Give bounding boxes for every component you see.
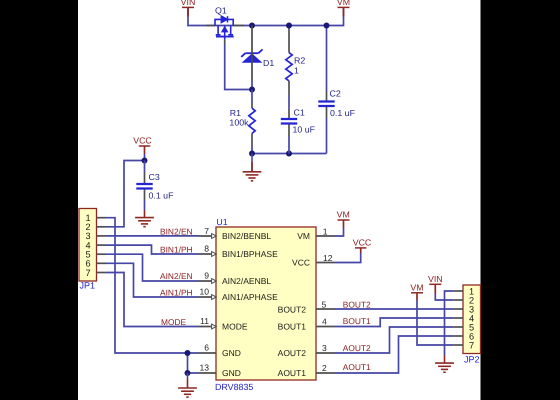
svg-text:1: 1 [323, 227, 328, 237]
svg-text:10: 10 [199, 287, 209, 297]
svg-text:VIN: VIN [428, 274, 443, 284]
svg-text:12: 12 [323, 253, 333, 263]
svg-text:D1: D1 [263, 58, 274, 68]
wire: U1 pin12 to VCC symbol [335, 253, 361, 263]
wire: GND vertical to U1 pin13 [188, 353, 199, 373]
wire: AOUT2 U1 pin3 to JP2 pin5 [335, 327, 454, 353]
svg-text:BOUT1: BOUT1 [343, 316, 371, 326]
node A junction (gate/D1/R1) [249, 87, 255, 93]
svg-text:BIN1/BPHASE: BIN1/BPHASE [222, 249, 278, 259]
VM power symbol (above JP2) [410, 282, 423, 300]
svg-text:JP2: JP2 [464, 355, 480, 365]
VM power symbol (top right) [337, 0, 350, 17]
wire: BOUT1 U1 pin4 to JP2 pin4 [335, 318, 454, 327]
svg-text:C1: C1 [294, 108, 305, 118]
svg-text:AOUT2: AOUT2 [343, 343, 371, 353]
wire: top rail VIN to VM [188, 8, 344, 26]
svg-text:BOUT1: BOUT1 [278, 322, 307, 332]
wire: BIN1/PH JP1 pin4 to U1 pin8 [106, 245, 199, 254]
svg-text:MODE: MODE [222, 322, 248, 332]
wire: BOUT2 U1 pin5 to JP2 pin3 [335, 308, 454, 310]
transistor Q1 (P-MOSFET with body diode) [215, 16, 234, 40]
U1 pin names [222, 231, 310, 378]
svg-text:6: 6 [204, 343, 209, 353]
JP2 pin stubs [453, 291, 463, 345]
svg-text:R1: R1 [230, 108, 241, 118]
svg-text:AOUT2: AOUT2 [278, 348, 307, 358]
svg-text:9: 9 [204, 271, 209, 281]
ground (below U1 GND pins) [178, 373, 197, 397]
wire: GND net JP1 pin1 to U1 pin6 [106, 218, 199, 353]
svg-text:AIN1/PH: AIN1/PH [160, 287, 193, 297]
svg-text:VM: VM [337, 0, 350, 7]
wire: U1 pin1 to VM symbol [335, 228, 344, 237]
svg-text:U1: U1 [216, 217, 227, 227]
svg-text:13: 13 [199, 363, 209, 373]
svg-text:0.1 uF: 0.1 uF [149, 191, 175, 201]
wire: D1 column pin leads [251, 26, 253, 82]
svg-text:3: 3 [322, 343, 327, 353]
svg-text:10 uF: 10 uF [293, 125, 316, 135]
U1 right pin stubs [316, 236, 335, 373]
svg-text:7: 7 [469, 340, 474, 350]
IC U1 box [216, 227, 316, 380]
svg-text:AOUT1: AOUT1 [278, 368, 307, 378]
ground (below R1) [243, 154, 262, 181]
svg-text:11: 11 [200, 316, 209, 326]
wire: VM to JP2 pin7 [417, 300, 453, 345]
svg-text:GND: GND [222, 368, 241, 378]
svg-text:VM: VM [410, 282, 423, 292]
svg-text:C2: C2 [330, 89, 341, 99]
transistor Q1 pin stubs [206, 26, 244, 45]
JP1 pin stubs [97, 218, 107, 273]
wire: AOUT1 U1 pin2 to JP2 pin6 [335, 336, 454, 373]
connector JP2 [463, 285, 481, 354]
junction at C1 bottom [286, 151, 292, 157]
svg-text:BIN2/BENBL: BIN2/BENBL [222, 231, 271, 241]
svg-text:JP1: JP1 [80, 281, 96, 291]
svg-text:BIN1/PH: BIN1/PH [160, 244, 193, 254]
svg-text:VCC: VCC [292, 258, 310, 268]
junction GND at pin6 row [185, 350, 191, 356]
capacitor C3 [136, 161, 174, 211]
svg-text:100k: 100k [229, 118, 249, 128]
junction GND at pin13 row [185, 370, 191, 376]
wire: MODE JP1 pin7 to U1 pin11 [106, 273, 199, 327]
svg-text:VCC: VCC [353, 237, 372, 247]
svg-text:BOUT2: BOUT2 [343, 300, 371, 310]
svg-text:7: 7 [204, 226, 209, 236]
svg-text:7: 7 [85, 268, 90, 278]
wire: bottom rail of input stage [252, 153, 327, 155]
connector JP1 [79, 209, 97, 282]
svg-text:2: 2 [322, 363, 327, 373]
wire: GND JP2 pin1 down past box [445, 291, 454, 356]
wire: AIN2/EN JP1 pin5 to U1 pin9 [106, 254, 199, 281]
junction on top rail at R2 [286, 23, 292, 29]
white schematic sheet [78, 0, 481, 400]
resistor R1 [229, 90, 255, 154]
resistor R2 [286, 26, 306, 96]
wire: gate of Q1 down to node A [225, 44, 249, 90]
junction on top rail at D1 [249, 23, 255, 29]
ground (below C3) [135, 210, 154, 227]
svg-text:BIN2/EN: BIN2/EN [160, 226, 193, 236]
svg-text:R2: R2 [294, 56, 305, 66]
svg-text:0.1 uF: 0.1 uF [330, 108, 356, 118]
svg-text:AOUT1: AOUT1 [343, 362, 371, 372]
wire: BIN2/EN JP1 pin3 to U1 pin7 [106, 235, 199, 237]
svg-text:Q1: Q1 [215, 6, 227, 16]
svg-text:8: 8 [204, 244, 209, 254]
svg-text:AIN2/AENBL: AIN2/AENBL [222, 276, 271, 286]
svg-text:1: 1 [294, 66, 299, 76]
junction on top rail at C2 [324, 23, 330, 29]
svg-text:VCC: VCC [133, 136, 152, 146]
wire: VCC node to JP1 pin 2 [106, 161, 145, 227]
svg-text:MODE: MODE [161, 317, 187, 327]
capacitor C1 [281, 95, 316, 154]
junction at VCC/C3 [142, 158, 148, 164]
svg-text:GND: GND [222, 348, 241, 358]
wire: VIN to JP2 pin2 [435, 294, 453, 300]
U1 input pin arrows [212, 234, 217, 329]
svg-text:BOUT2: BOUT2 [278, 304, 307, 314]
capacitor C2 [318, 26, 355, 154]
VIN power symbol (above JP2) [428, 274, 443, 294]
U1 left pin stubs [199, 236, 217, 373]
U1 pin numbers [199, 226, 332, 373]
VCC power symbol (left) [133, 136, 152, 161]
svg-text:VM: VM [297, 231, 310, 241]
svg-text:VM: VM [337, 209, 350, 219]
svg-text:DRV8835: DRV8835 [215, 382, 253, 392]
VIN power symbol (top left) [181, 0, 196, 17]
svg-text:5: 5 [322, 300, 327, 310]
svg-text:VIN: VIN [181, 0, 196, 7]
diode D1 (zener, pointing up) [241, 49, 262, 62]
VCC power symbol (right of U1) [353, 237, 372, 253]
svg-text:AIN1/APHASE: AIN1/APHASE [222, 292, 278, 302]
svg-text:AIN2/EN: AIN2/EN [160, 271, 193, 281]
svg-text:C3: C3 [149, 172, 160, 182]
VM power symbol (right of U1) [337, 209, 350, 227]
junction at R1 bottom [249, 151, 255, 157]
wire: AIN1/PH JP1 pin6 to U1 pin10 [106, 263, 199, 297]
svg-text:4: 4 [322, 317, 327, 327]
ground (below JP2) [435, 356, 454, 373]
